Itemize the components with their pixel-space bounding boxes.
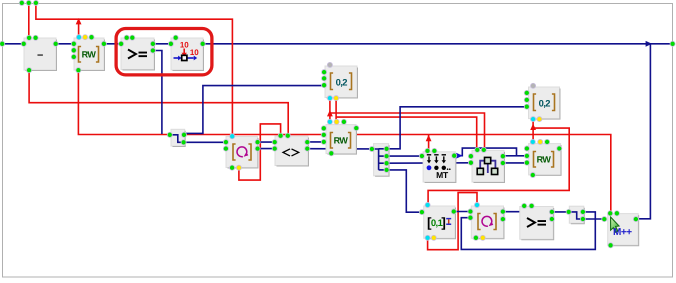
pin U5 cyan (327, 96, 332, 101)
pin U8 left2 (321, 132, 326, 137)
pin U14 left1 (468, 209, 473, 214)
pin J2 right2 (384, 154, 389, 159)
wire red branch rail to MT top pin (428, 135, 430, 151)
block U15 greater-or-equal 2 (520, 207, 554, 240)
wire main navy rail y=44 across row1 (2, 43, 672, 45)
svg-text:RW: RW (82, 50, 97, 60)
icon <> (283, 149, 299, 156)
wire navy splitter tap1 overlay (379, 148, 387, 150)
pin U4 right (200, 41, 205, 46)
pin J2 right1 (384, 146, 389, 151)
wire red loop to [0,1]E cyan pin (428, 128, 569, 205)
block U16 M++ mouse counter (608, 214, 639, 246)
pin U7 top2 (285, 133, 290, 138)
pin J3 right2 (580, 216, 585, 221)
wire red long rail y=134.5 from RW1 bottom to M++ top pin (78, 70, 610, 213)
wire navy elbow inside junction1 tile (170, 135, 184, 143)
block U9 MT multi-trigger (423, 152, 456, 183)
wire navy splitter tap2 (379, 155, 387, 157)
node pin top border 2 (26, 0, 31, 5)
pin U16 left (602, 217, 607, 222)
pin U9 right (452, 153, 457, 158)
pin U8 top green (341, 119, 346, 124)
pin U4 left (168, 41, 173, 46)
pin U3 right2 (150, 48, 155, 53)
wire navy junction1 up to [0,2]a input (184, 86, 324, 134)
pin U8 bottom (329, 151, 334, 156)
svg-text:10: 10 (190, 48, 199, 57)
icon [RW] 3 (534, 152, 537, 168)
pin U10 right2 (500, 160, 505, 165)
wire red top rail y=19 to [Q]1 cyan pin (36, 3, 233, 136)
icon [0,2] a (331, 73, 334, 90)
wire navy splitter out2 to MT input (386, 155, 422, 157)
block J3 wire junction tile 3 (569, 206, 584, 224)
pin U13 bottom cyan (425, 235, 430, 240)
wire navy splitter tap3 overlay (379, 162, 387, 164)
pin U7 left2 (272, 146, 277, 151)
node pin left border rail (0, 41, 5, 46)
wire navy [Q]2 out to >= 2 input (503, 211, 520, 213)
pin U12 yellow (538, 139, 543, 144)
svg-text:–: – (37, 49, 43, 61)
pin U8 yellow (334, 119, 339, 124)
red rounded highlight frame around >= and offset blocks (116, 29, 212, 75)
arrow red up on RW1 cyan feed (76, 18, 82, 24)
pin U15 right2 (549, 216, 554, 221)
pin U1 top2 (33, 35, 38, 40)
arrow red up on MT top feed (426, 135, 432, 141)
wire navy branch right into RW3 input2 (517, 155, 527, 157)
icon [Q] 1 rotate (233, 144, 236, 160)
wire red branch down to RW1 cyan pin (78, 19, 80, 37)
pin U2 cyan (76, 35, 81, 40)
pin U9 left (419, 153, 424, 158)
pin U10 top1 (475, 147, 480, 152)
block J2 splitter tile (374, 144, 390, 177)
svg-text:RW: RW (334, 136, 349, 146)
pin U15 top2 (529, 203, 534, 208)
icon >= 1 (128, 50, 136, 59)
pin U6 cyan (230, 134, 235, 139)
pin U2 top green (89, 35, 94, 40)
wire navy [Q]1 out2 to <> in2 (258, 148, 275, 150)
pin U12 left2 (524, 153, 529, 158)
node pin top border 3 (33, 0, 38, 5)
icon [Q] 2 rotate (478, 214, 481, 230)
pin U2 bottom (76, 68, 81, 73)
wire red loop [Q]1 yellow to <> top pin1 (239, 124, 281, 180)
svg-text:MT: MT (436, 170, 449, 180)
pin U10 top2 (481, 147, 486, 152)
pin U14 left2 (468, 215, 473, 220)
arrow red up on RW3 cyan feed (530, 124, 536, 130)
pin J1 right2 (181, 140, 186, 145)
pin U11 gray (531, 83, 536, 88)
wire navy splitter out4 down to [0,1]E input (386, 170, 422, 212)
block U8 RW array read-write 2 (326, 125, 357, 155)
wire red loop [0,1]E bottom cyan to [Q]2 cyan pin (428, 193, 477, 250)
pin U7 top1 (278, 133, 283, 138)
pin U5 left1 (322, 70, 327, 75)
wire navy junction3 internal elbow overlay (569, 212, 583, 219)
wire navy [0,1]E out to [Q]2 in1 (454, 211, 471, 213)
pin U2 yellow (83, 35, 88, 40)
pin U5 yellow (334, 96, 339, 101)
wire navy splitter out3 behind MT to tree in2 (386, 162, 471, 164)
pin U10 left1 (468, 154, 473, 159)
icon >= 2 (527, 218, 535, 227)
wire navy splitter tap4 (379, 169, 387, 171)
pin U11 left3 (524, 104, 529, 109)
wire navy [Q]1 out1 to <> in1 (258, 141, 275, 143)
wire navy splitter tap3 (379, 162, 387, 164)
svg-text:]: ] (441, 215, 446, 230)
wire navy feedback loop junction3 to [Q]2 in2 (461, 212, 595, 250)
pin U12 cyan (530, 139, 535, 144)
icon MT arrows dots (427, 154, 431, 156)
arrow navy right near end of main rail (646, 41, 652, 47)
pin U1 bottom (27, 68, 32, 73)
pin J2 right4 (384, 167, 389, 172)
icon tree of squares (480, 161, 495, 173)
pin U9 top2 (432, 148, 437, 153)
pin U13 cyan (425, 202, 430, 207)
pin U15 right1 (549, 209, 554, 214)
svg-text:M++: M++ (613, 227, 632, 238)
wire red from top border pin2 down to minus top pin (28, 3, 30, 38)
wire red [0,2]b cyan down to RW3 cyan (532, 119, 534, 142)
wire navy <> out2 behind RW2 to splitter left pin (307, 148, 372, 150)
block U1 subtract (24, 38, 57, 71)
arrow blue right on MT output (456, 153, 462, 159)
block U11 [0,2] range b (529, 87, 561, 119)
wire navy splitter tap4 overlay (379, 169, 387, 171)
wire navy <> out1 to RW2 input (307, 141, 324, 143)
icon [RW] 1 (79, 47, 82, 63)
wire red [0,2]a cyan down to RW2 cyan (329, 98, 331, 121)
wire navy branch down right edge to M++ right pin (636, 44, 650, 219)
block U14 [Q] loop 2 (471, 206, 504, 239)
pin U1 left (21, 41, 26, 46)
wire navy from >= out2 down to junction1 (153, 51, 162, 135)
svg-text:10: 10 (180, 40, 189, 49)
block U3 greater-or-equal (121, 38, 155, 70)
pin U11 left1 (524, 90, 529, 95)
pin U3 top2 (130, 35, 135, 40)
block U13 [0,1]E enumerate (424, 206, 456, 239)
pin J3 left (566, 209, 571, 214)
pin U16 top1 (608, 211, 613, 216)
block U7 not-equal <> (275, 136, 309, 166)
wire red from minus bottom to <> top pin2 (29, 70, 288, 136)
wire navy splitter internal spine (372, 149, 379, 170)
pin U12 top green (545, 139, 550, 144)
pin U1 top1 (27, 35, 32, 40)
pin U2 left3 (71, 54, 76, 59)
svg-text:0,2: 0,2 (539, 98, 551, 109)
pin U2 left1 (71, 41, 76, 46)
pin U12 left3 (524, 160, 529, 165)
pin U2 right (101, 41, 106, 46)
pin U6 right2 (255, 146, 260, 151)
pin U14 bottom green (473, 235, 478, 240)
wire navy splitter spine overlay (372, 149, 379, 170)
pin U16 bottom (608, 243, 613, 248)
wire navy tree out2 to RW3 input3 (503, 162, 527, 164)
svg-text:0,2: 0,2 (336, 77, 348, 88)
pin U5 gray (327, 62, 332, 67)
pin U6 left2 (223, 146, 228, 151)
wire navy junction3 out2 to M++ input (583, 218, 604, 220)
wire navy elbow inside junction3 tile (569, 212, 583, 219)
pin U16 right (633, 217, 638, 222)
pin U14 right2 (500, 217, 505, 222)
wire red rail y=113 to tree top pin2 (330, 113, 485, 150)
pin U16 top2 (614, 211, 619, 216)
wire navy junction1 to [Q]1 input (184, 141, 226, 143)
wire navy splitter out1 up to [0,2]b input (386, 107, 527, 149)
pin U6 bottom yellow (236, 165, 241, 170)
pin U13 bottom yellow (431, 235, 436, 240)
pin J1 left (167, 132, 172, 137)
pin U6 right1 (255, 140, 260, 145)
pin J2 right3 (384, 161, 389, 166)
pin U2 left2 (71, 48, 76, 53)
pin U6 left1 (223, 140, 228, 145)
pin U1 right (53, 41, 58, 46)
icon [RW] 2 (331, 133, 334, 149)
pin U12 right top (557, 146, 562, 151)
pin U3 top1 (124, 35, 129, 40)
pin U8 right top (354, 126, 359, 131)
pin U11 left2 (524, 97, 529, 102)
pin U6 bottom green (230, 165, 235, 170)
wire navy splitter tap1 (379, 148, 387, 150)
node pin right border rail (670, 41, 675, 46)
pin U8 left1 (321, 126, 326, 131)
pin U13 right (451, 209, 456, 214)
wire navy MT output over tree block (454, 148, 516, 156)
pin U7 right2 (305, 146, 310, 151)
pin U9 top1 (425, 148, 430, 153)
block U4 offset 10,10 (171, 38, 204, 71)
wire navy junction1 internal elbow overlay (170, 135, 184, 143)
svg-text:RW: RW (537, 155, 552, 165)
block U12 RW array read-write 3 (529, 144, 562, 176)
pin U14 right1 (500, 209, 505, 214)
pin U11 yellow (537, 117, 542, 122)
pin U8 cyan (327, 119, 332, 124)
pin U5 left2 (322, 76, 327, 81)
wire navy >= 2 out to junction3 (552, 211, 569, 213)
pin U15 top1 (522, 203, 527, 208)
pin U8 left3 (321, 139, 326, 144)
block U5 [0,2] range a (325, 66, 358, 98)
block J1 wire junction tile 1 (171, 129, 185, 146)
pin U10 right1 (500, 154, 505, 159)
block U6 [Q] loop 1 (226, 137, 258, 169)
pin U12 bottom (530, 172, 535, 177)
wire red rail y=117 to tree top pin1 (336, 117, 477, 150)
wire red [0,2]a yellow down to RW2 yellow (335, 98, 337, 121)
pin U12 left1 (524, 146, 529, 151)
pin U14 bottom yellow (480, 235, 485, 240)
pin U13 left (419, 210, 424, 215)
pin U11 cyan (531, 117, 536, 122)
wire navy splitter tap2 overlay (379, 155, 387, 157)
icon [0,2] b (534, 94, 537, 111)
block U10 tree structure (472, 150, 505, 182)
pin J3 right1 (580, 209, 585, 214)
wire navy branch left into tree in1 (503, 155, 517, 157)
block U2 RW array read-write (74, 38, 105, 71)
pin U10 left2 (468, 160, 473, 165)
pin J2 left (369, 146, 374, 151)
pin U14 cyan (474, 202, 479, 207)
node pin top border 1 (19, 0, 24, 5)
pin U7 left1 (272, 140, 277, 145)
pin U7 right1 (305, 140, 310, 145)
pin U3 right1 (150, 41, 155, 46)
pin U3 left (119, 41, 124, 46)
pin J1 right1 (181, 132, 186, 137)
arrow red up on RW2 cyan feed (327, 110, 333, 116)
pin U4 top (173, 35, 178, 40)
pin U5 left3 (322, 83, 327, 88)
